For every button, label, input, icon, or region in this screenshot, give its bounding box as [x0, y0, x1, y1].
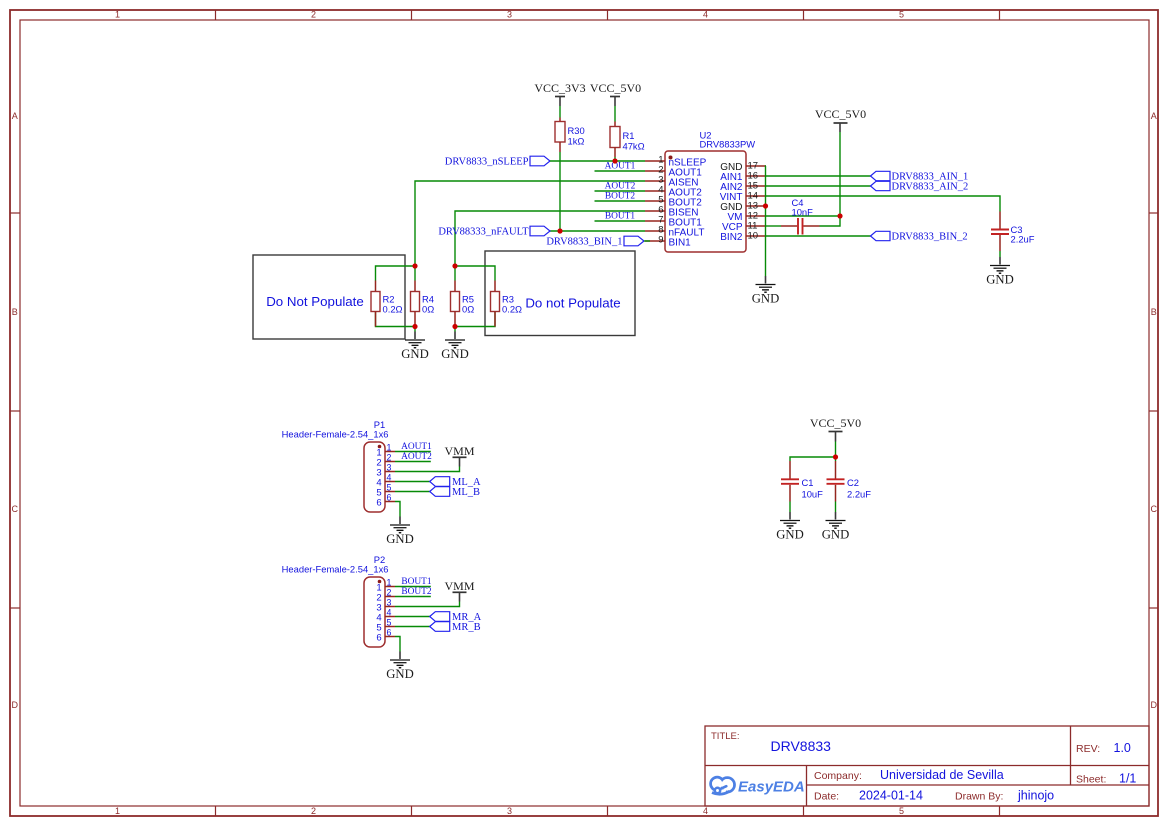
- U2 pin names left: [669, 157, 707, 248]
- resistor R3: [491, 281, 523, 327]
- IC U2 DRV8833PW body: [665, 130, 755, 253]
- wire P1 pin6 to GND: [395, 502, 400, 517]
- svg-text:2.2uF: 2.2uF: [1011, 234, 1035, 245]
- connector P1 Header-Female-2.54_1x6: [282, 419, 389, 512]
- wire P2 pin4 to MR_A: [395, 616, 430, 618]
- wire R2 bypass loop: [376, 266, 416, 281]
- svg-text:BIN2: BIN2: [720, 232, 743, 243]
- port DRV8833_BIN_2: [871, 231, 968, 242]
- wire VCC_5V0 down to C2: [835, 442, 837, 462]
- wire R4 to GND: [414, 327, 416, 332]
- svg-text:VCC_5V0: VCC_5V0: [815, 107, 866, 121]
- resistor R2: [371, 281, 403, 327]
- wire U2 pin11 VCP to C4: [766, 225, 781, 227]
- svg-text:DRV8833_BIN_1: DRV8833_BIN_1: [546, 237, 622, 248]
- svg-text:BOUT1: BOUT1: [605, 212, 636, 222]
- wire C1 to GND: [789, 502, 791, 513]
- svg-text:REV:: REV:: [1076, 743, 1100, 755]
- svg-text:6: 6: [376, 633, 381, 644]
- svg-text:A: A: [12, 111, 18, 121]
- port DRV8833_AIN_2: [871, 181, 969, 192]
- wire U2 pin15 to AIN_2 port: [766, 185, 871, 187]
- wire nSLEEP port to U2 pin1: [550, 160, 645, 162]
- svg-text:GND: GND: [386, 667, 414, 681]
- svg-text:VMM: VMM: [444, 444, 474, 458]
- wire U2 pin16 to AIN_1 port: [766, 175, 871, 177]
- svg-text:1kΩ: 1kΩ: [568, 136, 585, 147]
- svg-text:10: 10: [748, 230, 759, 241]
- wire stub AOUT1 (U2 pin2): [595, 170, 646, 172]
- P2 pin stubs: [385, 587, 395, 637]
- svg-text:GND: GND: [386, 532, 414, 546]
- svg-text:GND: GND: [441, 347, 469, 361]
- wire U2 pin6 BISEN down to R5: [455, 211, 645, 266]
- wire P2 pin1 BOUT1: [395, 586, 431, 588]
- svg-text:DRV8833_AIN_2: DRV8833_AIN_2: [892, 182, 969, 193]
- svg-text:Universidad de Sevilla: Universidad de Sevilla: [880, 768, 1004, 782]
- svg-text:AOUT2: AOUT2: [401, 452, 432, 462]
- wire U2 pin10 to BIN_2 port: [766, 235, 871, 237]
- svg-text:3: 3: [387, 598, 392, 608]
- svg-text:3: 3: [507, 10, 512, 20]
- capacitor C2: [827, 461, 872, 502]
- port ML_A: [430, 477, 481, 488]
- ground GND under C2: [822, 512, 850, 542]
- resistor R30: [555, 118, 585, 153]
- P1 pin names 1-6: [376, 448, 381, 509]
- Do not Populate box right: [485, 251, 635, 336]
- power flag VMM (P1): [444, 444, 474, 467]
- power flag VCC_5V0 top: [590, 81, 641, 106]
- wire U2 pin14 VINT to C3: [766, 196, 1000, 212]
- svg-text:5: 5: [387, 618, 392, 628]
- svg-text:2: 2: [311, 806, 316, 816]
- ground GND under P1: [386, 517, 414, 547]
- svg-text:AOUT2: AOUT2: [605, 182, 636, 192]
- wire stub BOUT1 (U2 pin7): [595, 220, 646, 222]
- connector P2 Header-Female-2.54_1x6: [282, 554, 389, 647]
- svg-text:C1: C1: [802, 477, 814, 488]
- wire R1 to pin1 net: [614, 157, 616, 161]
- svg-text:R30: R30: [568, 125, 585, 136]
- svg-text:ML_B: ML_B: [452, 487, 480, 498]
- svg-text:4: 4: [703, 10, 708, 20]
- svg-text:0Ω: 0Ω: [422, 304, 434, 315]
- svg-text:1/1: 1/1: [1119, 772, 1136, 786]
- power flag VCC_5V0 mid: [815, 107, 866, 132]
- EasyEDA logo: [711, 777, 805, 796]
- svg-text:GND: GND: [986, 273, 1014, 287]
- svg-text:DRV8833_BIN_2: DRV8833_BIN_2: [892, 232, 968, 243]
- svg-text:D: D: [1151, 700, 1158, 710]
- port DRV88333_nFAULT: [438, 226, 550, 237]
- svg-text:BOUT2: BOUT2: [605, 192, 636, 202]
- power flag VCC_3V3: [534, 81, 585, 106]
- U2 pin numbers left: [658, 155, 663, 246]
- svg-text:BOUT1: BOUT1: [401, 577, 432, 587]
- svg-text:2: 2: [311, 10, 316, 20]
- wire C3 to GND: [999, 251, 1001, 257]
- svg-text:VCC_5V0: VCC_5V0: [590, 81, 641, 95]
- svg-text:2.2uF: 2.2uF: [847, 489, 871, 500]
- svg-text:3: 3: [507, 806, 512, 816]
- wire R3 bypass loop: [455, 266, 495, 281]
- svg-text:1: 1: [115, 806, 120, 816]
- svg-text:DRV88333_nFAULT: DRV88333_nFAULT: [438, 227, 529, 238]
- svg-text:R1: R1: [623, 130, 635, 141]
- wire BIN_1 port to U2 pin9: [644, 240, 650, 242]
- U2 pin numbers right: [748, 160, 759, 241]
- svg-text:jhinojo: jhinojo: [1017, 789, 1054, 803]
- svg-text:GND: GND: [822, 528, 850, 542]
- svg-text:1: 1: [387, 578, 392, 588]
- wire P1 pin4 to ML_A: [395, 481, 430, 483]
- svg-text:GND: GND: [401, 347, 429, 361]
- P2 pin numbers 1-6: [387, 578, 392, 638]
- P1 pin numbers 1-6: [387, 443, 392, 503]
- svg-text:6: 6: [376, 498, 381, 509]
- resistor R1: [610, 122, 645, 158]
- svg-text:A: A: [1151, 111, 1157, 121]
- wire U2 pin3 AISEN down to R4: [415, 181, 645, 266]
- ground GND under R4: [401, 332, 429, 362]
- port DRV8833_AIN_1: [871, 171, 969, 182]
- Do Not Populate box left: [253, 255, 405, 339]
- svg-text:2: 2: [387, 453, 392, 463]
- svg-text:D: D: [12, 700, 19, 710]
- junction dots: [412, 158, 842, 459]
- svg-text:Drawn By:: Drawn By:: [955, 791, 1003, 803]
- svg-text:Do Not Populate: Do Not Populate: [266, 294, 364, 309]
- svg-text:TITLE:: TITLE:: [711, 731, 740, 742]
- svg-text:4: 4: [387, 608, 392, 618]
- port ML_B: [430, 487, 480, 498]
- port MR_B: [430, 622, 481, 633]
- power flag VCC_5V0 at C1 C2: [810, 416, 861, 442]
- svg-text:AOUT1: AOUT1: [605, 162, 636, 172]
- wire VCC_3V3 to R30: [559, 106, 561, 118]
- port DRV8833_nSLEEP: [445, 156, 550, 167]
- svg-text:5: 5: [899, 10, 904, 20]
- svg-text:5: 5: [899, 806, 904, 816]
- wire P1 pin1 AOUT1: [395, 451, 431, 453]
- capacitor C1: [781, 461, 823, 502]
- power flag VMM (P2): [444, 579, 474, 602]
- U2 right pin stubs 17-10: [746, 166, 766, 236]
- svg-text:5: 5: [387, 483, 392, 493]
- wire P2 pin2 BOUT2: [395, 596, 431, 598]
- svg-text:0Ω: 0Ω: [462, 304, 474, 315]
- svg-text:Header-Female-2.54_1x6: Header-Female-2.54_1x6: [282, 429, 389, 440]
- ground GND under U2: [752, 276, 780, 306]
- U2 pin names right: [720, 162, 743, 243]
- wire P1 pin5 to ML_B: [395, 491, 430, 493]
- resistor R4: [411, 266, 435, 327]
- wire R30 to nFAULT net: [559, 152, 561, 231]
- resistor R5: [451, 266, 475, 327]
- svg-text:1: 1: [387, 443, 392, 453]
- svg-text:C: C: [1151, 504, 1158, 514]
- wire P2 pin6 to GND: [395, 637, 400, 652]
- svg-text:9: 9: [658, 235, 663, 246]
- wire C1 branch: [790, 457, 836, 461]
- svg-text:Do not Populate: Do not Populate: [525, 296, 620, 311]
- wire R5 to GND: [454, 327, 456, 332]
- svg-text:EasyEDA: EasyEDA: [738, 779, 805, 796]
- wire C4 to VM net: [820, 216, 841, 226]
- svg-text:0.2Ω: 0.2Ω: [383, 304, 403, 315]
- svg-text:Company:: Company:: [814, 770, 862, 782]
- svg-text:6: 6: [387, 628, 392, 638]
- wire VCC_5V0 down to VM junction: [839, 132, 841, 216]
- svg-text:DRV8833PW: DRV8833PW: [700, 139, 756, 150]
- svg-text:2: 2: [387, 588, 392, 598]
- ground GND under C3: [986, 257, 1014, 287]
- wire stub AOUT2 (U2 pin4): [595, 190, 646, 192]
- svg-text:Sheet:: Sheet:: [1076, 774, 1106, 786]
- svg-text:6: 6: [387, 493, 392, 503]
- port DRV8833_BIN_1: [546, 236, 644, 247]
- svg-text:AOUT1: AOUT1: [401, 442, 432, 452]
- ground GND under R5: [441, 332, 469, 362]
- U2 left pin stubs 1-9: [645, 161, 665, 241]
- P2 pin names 1-6: [376, 583, 381, 644]
- svg-text:10uF: 10uF: [802, 489, 824, 500]
- svg-text:VMM: VMM: [444, 579, 474, 593]
- svg-text:C2: C2: [847, 477, 859, 488]
- wire nFAULT port to U2 pin8: [550, 230, 645, 232]
- svg-text:1.0: 1.0: [1114, 741, 1131, 755]
- wire U2 pin17 GND down: [765, 166, 768, 276]
- wire stub BOUT2 (U2 pin5): [595, 200, 646, 202]
- svg-text:1: 1: [115, 10, 120, 20]
- title block: [705, 726, 1149, 806]
- wire VCC_5V0 to R1: [614, 106, 616, 122]
- svg-text:0.2Ω: 0.2Ω: [502, 304, 522, 315]
- capacitor C3: [991, 212, 1035, 252]
- ground GND under C1: [776, 512, 804, 542]
- svg-text:4: 4: [387, 473, 392, 483]
- svg-text:Header-Female-2.54_1x6: Header-Female-2.54_1x6: [282, 564, 389, 575]
- wire P1 pin2 AOUT2: [395, 461, 431, 463]
- svg-text:GND: GND: [776, 528, 804, 542]
- svg-text:GND: GND: [752, 292, 780, 306]
- svg-text:DRV8833: DRV8833: [771, 738, 832, 754]
- svg-text:47kΩ: 47kΩ: [623, 141, 645, 152]
- svg-text:BOUT2: BOUT2: [401, 587, 432, 597]
- wire C2 to GND: [835, 502, 837, 513]
- svg-text:VCC_5V0: VCC_5V0: [810, 416, 861, 430]
- ground GND under P2: [386, 652, 414, 682]
- svg-text:B: B: [1151, 307, 1157, 317]
- svg-text:10nF: 10nF: [792, 207, 814, 218]
- svg-text:VCC_3V3: VCC_3V3: [534, 81, 585, 95]
- wire U2 pin12 VM to VCC: [766, 215, 840, 217]
- port MR_A: [430, 612, 482, 623]
- wire P2 pin3 to VMM: [395, 602, 460, 607]
- wire P1 pin3 to VMM: [395, 467, 460, 472]
- svg-text:3: 3: [387, 463, 392, 473]
- P1 pin stubs: [385, 452, 395, 502]
- wire P2 pin5 to MR_B: [395, 626, 430, 628]
- svg-text:C: C: [12, 504, 19, 514]
- svg-text:BIN1: BIN1: [669, 237, 692, 248]
- svg-text:B: B: [12, 307, 18, 317]
- svg-text:MR_B: MR_B: [452, 622, 481, 633]
- svg-text:DRV8833_nSLEEP: DRV8833_nSLEEP: [445, 157, 529, 168]
- svg-text:Date:: Date:: [814, 791, 839, 803]
- svg-text:2024-01-14: 2024-01-14: [859, 789, 923, 803]
- svg-text:4: 4: [703, 806, 708, 816]
- capacitor C4: [781, 197, 820, 235]
